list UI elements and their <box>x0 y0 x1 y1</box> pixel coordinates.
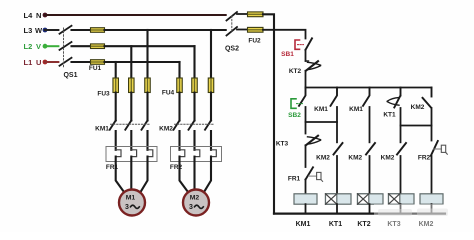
svg-text:FU3: FU3 <box>97 91 110 98</box>
wire fuse to KM2 contacts <box>180 93 212 121</box>
wire branch1 down <box>305 107 307 134</box>
fuse FU3 pole 3 <box>145 78 151 93</box>
switch QS1 <box>60 26 72 68</box>
svg-text:N: N <box>36 11 41 20</box>
relay contact KT3 (delay, branch 1) <box>276 136 321 148</box>
fuse FU4 pole 3 <box>208 78 214 93</box>
coil KT3 (timer) <box>389 194 415 204</box>
wire branch4 down <box>400 108 402 142</box>
coil KT2 (timer) <box>358 194 384 204</box>
svg-text:U: U <box>36 58 41 67</box>
wire fuse to KM1 contacts <box>116 93 148 121</box>
wire L2 line to QS1 (green) <box>45 45 58 47</box>
wire N rail (left vertical) <box>263 14 274 213</box>
svg-text:SB1: SB1 <box>281 51 294 58</box>
svg-text:KM2: KM2 <box>159 126 173 133</box>
wire QS2 to FU2 pole W <box>237 29 248 31</box>
node L4 N <box>24 11 48 20</box>
wire top bus <box>306 87 432 89</box>
wire drop W phase motor1 <box>146 30 148 78</box>
wire W phase to SB1 branch <box>263 30 306 39</box>
wires row2 to coils <box>336 156 338 194</box>
contact KM2 aux (branch 5) <box>411 88 432 112</box>
wire L1 after FU1 corner at 179.5 <box>105 61 180 63</box>
motor M1 <box>119 190 145 216</box>
node L3 W <box>24 26 48 35</box>
svg-text:KM2: KM2 <box>381 155 395 162</box>
wire drop U phase motor1 <box>115 62 117 78</box>
svg-text:L4: L4 <box>24 11 34 20</box>
pushbutton SB2 (start, NO) <box>288 88 305 120</box>
node L2 V <box>24 42 48 51</box>
wire L3 QS1 to FU1 <box>72 29 91 31</box>
svg-text:W: W <box>35 26 43 35</box>
contactor KM2 main contacts <box>174 121 212 130</box>
svg-text:FR1: FR1 <box>288 176 301 183</box>
fuse FU3 pole 1 <box>113 78 119 93</box>
coil KM2 <box>420 194 443 204</box>
wire branch2 down <box>336 107 338 142</box>
wire FR1 to coil KM1 <box>305 180 307 194</box>
wire tie KT1/KM2 <box>401 125 432 127</box>
svg-text:KM2: KM2 <box>348 155 362 162</box>
svg-text:KT2: KT2 <box>289 68 302 75</box>
fuse FU1 pole L3 <box>91 28 105 33</box>
svg-text:L3: L3 <box>24 26 33 35</box>
fuse FU2 pole N <box>248 12 264 17</box>
wire drop W phase motor2 <box>210 30 212 78</box>
wire L3 after FU1 to QS2 with taps <box>105 29 226 31</box>
svg-text:KT3: KT3 <box>276 141 289 148</box>
relay contact KT2 (delay) <box>289 61 321 75</box>
svg-text:L2: L2 <box>24 42 33 51</box>
thermal overload FR1 box <box>106 147 157 162</box>
wire FR2 to motor M2 <box>180 157 189 192</box>
pushbutton SB1 (stop, NC) <box>281 38 312 58</box>
svg-text:KM1: KM1 <box>349 106 363 113</box>
wire L1 QS1 to FU1 <box>72 61 91 63</box>
fuse FU3 pole 2 <box>129 78 135 93</box>
svg-text:FR2: FR2 <box>170 164 183 171</box>
svg-text:FU2: FU2 <box>248 38 261 45</box>
contactor KM1 main contacts <box>110 121 148 130</box>
wire drop V phase motor2 <box>193 46 195 78</box>
svg-text:FU4: FU4 <box>162 90 175 97</box>
contact KM1 aux (branch 3) <box>349 88 369 114</box>
contact KM2 aux (branch 4 row 2) <box>381 143 406 162</box>
fuse FU2 pole W <box>248 27 264 32</box>
wire L3 line to QS1 <box>45 29 58 31</box>
contact KM2 aux (branch 3 row 2) <box>348 143 375 162</box>
FR2 heater elements <box>180 150 217 157</box>
watermark <box>374 204 456 228</box>
thermal contact FR1 (branch 1) <box>288 167 323 182</box>
coil KT1 (timer) <box>326 194 352 204</box>
wire L1 line to QS1 (dark red) <box>45 61 58 63</box>
wire tie SB2/KM1 <box>306 121 338 123</box>
relay contact KT1 (delay, branch 4) <box>383 88 400 119</box>
svg-text:SB2: SB2 <box>288 112 301 119</box>
svg-text:QS1: QS1 <box>63 72 77 79</box>
svg-text:KT1: KT1 <box>329 221 342 228</box>
svg-text:KM2: KM2 <box>316 155 330 162</box>
wire KM1 contacts to FR1 <box>116 131 148 150</box>
wires coils to bottom bus <box>306 204 432 213</box>
wire KT2 to top bus <box>305 71 307 88</box>
wire drop U phase motor2 <box>178 62 180 78</box>
coil KM1 <box>294 194 317 204</box>
fuse FU1 pole L2 <box>91 44 105 49</box>
svg-text:3: 3 <box>189 204 193 211</box>
FR1 heater elements <box>116 150 153 157</box>
wire L2 QS1 to FU1 <box>72 45 91 47</box>
wire bottom bus <box>274 213 445 215</box>
wire KT3 to FR1 <box>305 145 307 167</box>
svg-text:KM1: KM1 <box>296 221 311 228</box>
wire SB1 to KT2 <box>305 50 307 61</box>
motor M2 <box>183 190 209 216</box>
thermal overload FR2 box <box>171 147 222 162</box>
wire drop V phase motor1 <box>130 46 132 78</box>
svg-text:KM1: KM1 <box>95 126 109 133</box>
svg-text:3: 3 <box>125 204 129 211</box>
fuse FU1 pole L1 <box>91 60 105 65</box>
svg-text:M2: M2 <box>190 195 200 202</box>
svg-text:FU1: FU1 <box>89 65 102 72</box>
wire branch3 down <box>369 107 371 142</box>
svg-text:QS2: QS2 <box>225 46 239 53</box>
contact KM2 aux (branch 2 row 2) <box>316 143 342 162</box>
wire QS2 to FU2 pole N <box>237 13 248 15</box>
svg-text:L1: L1 <box>24 58 33 67</box>
svg-text:FR2: FR2 <box>418 155 431 162</box>
fuse FU4 pole 2 <box>192 78 198 93</box>
fuse FU4 pole 1 <box>177 78 183 93</box>
wire branch5 down <box>431 108 433 141</box>
svg-text:KM2: KM2 <box>411 104 425 111</box>
contact KM1 aux (branch 2) <box>314 88 337 114</box>
wire FR1 to motor M1 <box>116 157 124 192</box>
svg-text:M1: M1 <box>126 195 136 202</box>
svg-text:KT2: KT2 <box>357 221 370 228</box>
svg-text:V: V <box>36 42 41 51</box>
switch QS2 <box>227 12 238 36</box>
svg-text:KT1: KT1 <box>383 112 396 119</box>
svg-text:KM1: KM1 <box>314 106 328 113</box>
wire KM2 contacts to FR2 <box>180 131 212 150</box>
wire L2 after FU1 corner at 194.5 <box>105 45 195 47</box>
wire L4 line to QS2 <box>45 14 226 16</box>
node L1 U <box>24 58 48 67</box>
thermal contact FR2 (branch 5) <box>418 141 447 162</box>
